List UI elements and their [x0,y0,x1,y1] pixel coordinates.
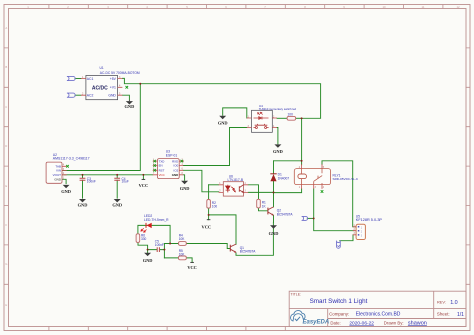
ground under R6 [143,253,153,263]
svg-text:AC-DC 5V 700MA-BOTOM: AC-DC 5V 700MA-BOTOM [100,71,140,75]
ground left of U4 [218,116,228,126]
svg-text:AC1: AC1 [87,77,94,81]
wire R3 right to junction [296,117,302,119]
wire U2 GND pin to flag [62,179,66,183]
resistor R3 [287,113,296,121]
svg-text:AC/DC: AC/DC [92,86,108,92]
resistor R5 [179,249,187,260]
wire U5 pin3 to port [340,235,353,241]
wire VCC flag stem on VOUT [142,175,144,180]
wire opto anode stub left [209,184,219,186]
svg-text:AMS1117-3.3_C498117: AMS1117-3.3_C498117 [53,157,90,161]
svg-text:GND: GND [269,231,279,236]
port P1 (AC live) [67,76,75,97]
svg-text:RXD: RXD [172,159,178,163]
wire D1 anode to emitter junction [273,181,275,192]
svg-text:+5V: +5V [110,77,117,81]
capacitor C4 [112,177,129,208]
wire ESP GND pin down [183,175,184,181]
svg-text:IO2: IO2 [174,169,179,173]
svg-text:H: H [5,303,7,307]
VCC flag on 3.3V rail [139,179,149,188]
svg-text:shawon: shawon [408,320,427,326]
LED2 [141,214,169,232]
svg-text:GND: GND [112,203,122,208]
wire Q2 emitter to GND [273,215,275,222]
wire relay coil bottom to emitter junction [274,189,302,193]
svg-text:A: A [5,26,7,30]
wire AC1 port to pin [75,78,81,80]
capacitor C3 [78,177,96,208]
transistor Q1 [230,244,256,254]
svg-text:Electronics.Com.BD: Electronics.Com.BD [356,312,401,318]
svg-text:TL8210 momentary switch led: TL8210 momentary switch led [259,107,297,111]
wire VCC junction right and down to Q1 collector [209,215,236,244]
wire port to NO line [307,217,313,219]
switch inside U4 [254,124,269,129]
svg-text:GND: GND [125,104,135,109]
optocoupler U6 [219,174,249,196]
wire C5 stubs [148,249,165,251]
svg-text:GND: GND [218,121,228,126]
svg-text:100nF: 100nF [155,243,164,247]
resistor R1 [257,199,267,208]
port under U5 [337,242,341,249]
momentary switch U4 [247,104,297,132]
svg-text:1N4007: 1N4007 [278,176,290,180]
svg-text:BC547BTA: BC547BTA [240,250,257,254]
wire relay NO down to U5 pin2 [314,189,355,231]
svg-text:IO0: IO0 [174,164,179,168]
wire relay coil pin stub down [301,161,303,165]
svg-text:TXD: TXD [159,159,165,163]
svg-text:11: 11 [422,5,425,9]
ground under U2 [61,185,71,194]
ground under Q2 [269,225,279,236]
wire Q1 emitter return to GND stem [236,222,273,255]
svg-text:TITLE:: TITLE: [291,293,302,297]
svg-text:LTV-817-B: LTV-817-B [228,178,244,182]
VCC flag under R2 [202,220,212,230]
svg-text:330: 330 [141,237,147,241]
svg-text:+V1: +V1 [110,86,116,90]
wire R3 junction down to relay coil top [301,118,303,161]
svg-text:VCC: VCC [159,173,165,177]
svg-text:D: D [5,144,7,148]
svg-text:B: B [5,65,7,69]
ground under U1 [125,100,135,109]
power module U1 [81,66,140,100]
wire AC2 port to pin [75,94,81,96]
port near relay NO [302,216,308,220]
svg-text:GND: GND [143,258,153,263]
svg-text:10K: 10K [179,237,186,241]
svg-text:VCC: VCC [187,265,197,270]
svg-text:SRD-05VDC-SL-C: SRD-05VDC-SL-C [333,177,359,181]
svg-text:Company:: Company: [329,312,349,317]
svg-text:Sheet:: Sheet: [437,312,450,317]
svg-text:Drawn By:: Drawn By: [384,320,404,325]
svg-text:REV:: REV: [437,300,446,305]
wire VOUT rail U2 to ESP VCC [62,174,153,176]
port P2 (AC neutral) [67,93,75,97]
wire C5 vertical link [163,244,165,258]
transistor Q2 [268,207,293,216]
svg-text:10uF: 10uF [122,180,129,184]
wire R5 line [164,258,192,263]
svg-text:EN: EN [159,164,163,168]
svg-text:10K: 10K [179,253,186,257]
relay coil [298,174,307,179]
svg-text:GND: GND [78,203,88,208]
wire R2 bottom to VCC junction [208,208,210,215]
svg-text:RST: RST [159,169,165,173]
svg-text:ESP-01: ESP-01 [166,153,178,157]
wire U4 led right to R3 [277,117,287,119]
svg-text:12: 12 [456,5,460,9]
svg-text:G: G [5,262,7,266]
wire R6 bottom jog to GND junction [138,242,148,252]
wire +5V from U1 to top-right rail [122,78,320,118]
ground under U4 switch [273,144,283,154]
wire R1 bottom to Q2 base [259,208,268,211]
opto led [226,185,236,193]
svg-text:GND: GND [108,94,116,98]
VCC flag under R5 [187,262,197,270]
wire relay common to U5 pin1 [322,161,356,227]
svg-text:100nF: 100nF [87,180,96,184]
wire U4 switch right down to GND [276,128,279,144]
resistor R4 [179,233,187,245]
svg-text:AC2: AC2 [87,94,94,98]
no-connect X on U1 +V1 [126,86,129,89]
svg-text:VCC: VCC [139,183,149,188]
junction dots [82,83,315,251]
svg-text:100: 100 [288,113,294,117]
wire U1 GND pin to flag [122,95,129,100]
svg-text:VCC: VCC [202,224,212,229]
svg-text:KF128R 5.0-3P: KF128R 5.0-3P [356,218,383,222]
no-connect X on relay NC [321,190,324,193]
svg-text:2020-06-22: 2020-06-22 [349,320,374,326]
svg-text:EasyEDA: EasyEDA [303,319,330,325]
diode D1 [270,173,289,182]
relay RLY1 [294,164,359,189]
wire VIN rail U2 to +5V vertical [62,84,140,171]
wire C3 stem [82,175,84,198]
wire anode down through R2 [208,185,210,200]
terminal block U5 [353,215,383,240]
wire D1 cathode lead [273,161,275,174]
no-connect X marks ESP [153,160,183,172]
wire opto collector to R1 top [248,185,258,200]
wire VCC stem under R2 [208,215,210,220]
wire ESP IO0 to U4 switch [183,128,247,166]
svg-text:GND: GND [54,178,62,182]
svg-text:GND: GND [273,149,283,154]
svg-text:Date:: Date: [330,320,340,325]
svg-text:E: E [5,184,7,188]
resistor R6 [136,234,146,243]
wire opto emitter to junction and Q2 collector [248,192,273,207]
no-connect X on U2 TAB [66,165,69,168]
svg-text:10: 10 [382,5,386,9]
resistor R2 [207,200,218,209]
wire ESP IO2 to opto cathode [183,170,218,192]
relay contact [314,169,322,185]
svg-text:1.0: 1.0 [450,300,458,306]
capacitor C5 [155,239,164,252]
svg-text:BC547BTA: BC547BTA [277,212,294,216]
svg-text:100: 100 [212,205,218,209]
regulator U2 AMS1117 [46,153,90,183]
tiny pin numbers [63,116,356,235]
svg-text:GND: GND [180,186,190,191]
svg-text:C: C [5,105,7,109]
svg-text:1/1: 1/1 [457,312,464,318]
svg-text:Smart Switch 1 Light: Smart Switch 1 Light [310,298,368,305]
svg-text:GND: GND [61,189,71,194]
svg-text:U1: U1 [100,66,104,70]
led inside U4 [254,112,269,119]
ESP-01 module U3 [153,150,184,179]
wire R4 line left and to Q1 base [164,244,230,249]
wire coil top junction to D1 cathode [274,160,302,162]
svg-text:LED-TH-5mm_R: LED-TH-5mm_R [144,218,169,222]
title block [289,291,466,326]
wire LED2 loop from R6 top [138,225,170,243]
wire C4 stem [116,175,118,198]
svg-text:VOUT: VOUT [53,173,62,177]
ground under ESP [180,181,190,191]
svg-text:GND: GND [172,173,178,177]
wire U4 led left to GND flag [223,108,247,118]
opto transistor [239,185,243,193]
EasyEDA logo [291,311,330,326]
svg-text:F: F [5,223,7,227]
